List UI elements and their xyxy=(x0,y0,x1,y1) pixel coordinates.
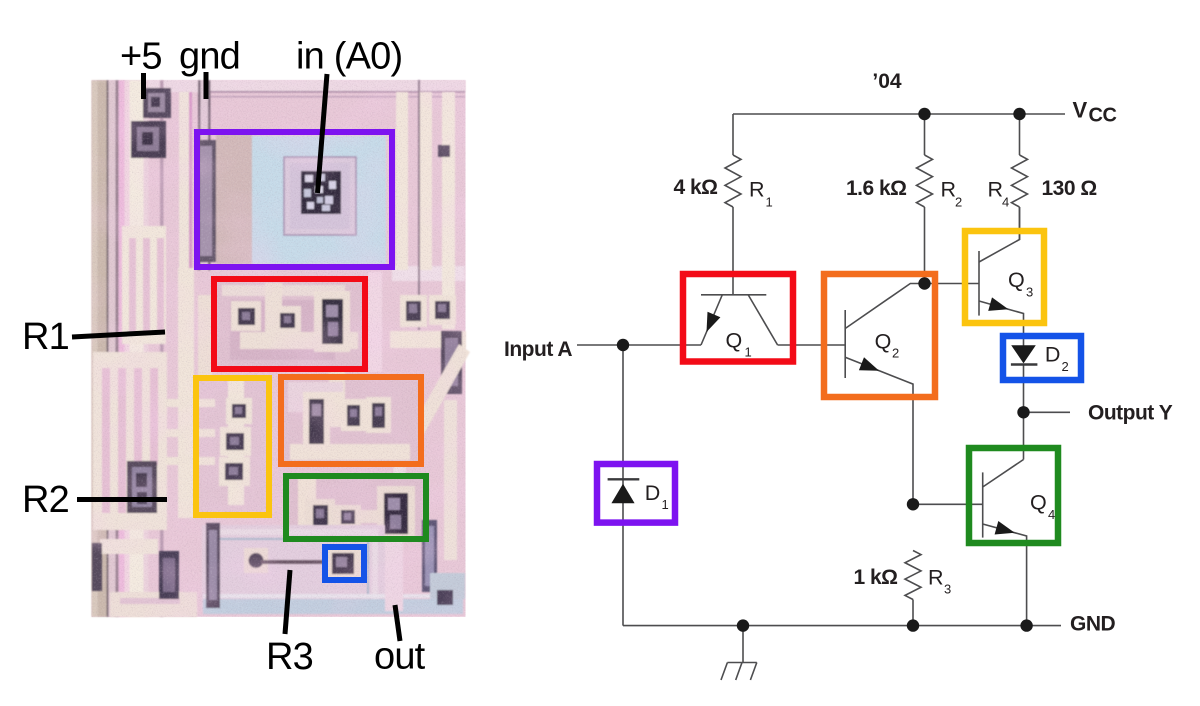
right diagonal street xyxy=(393,344,470,468)
svg-text:+5: +5 xyxy=(120,36,162,78)
yellow box interior xyxy=(196,378,269,515)
bottom-left cream street xyxy=(100,539,158,554)
transistor Q2 collector leg xyxy=(845,284,979,329)
bottom contact + trace to blue box xyxy=(244,548,268,573)
diode D1 triangle xyxy=(611,484,634,503)
diode D2 triangle xyxy=(1011,345,1036,363)
right horizontal street xyxy=(390,331,466,348)
resistor R4 zigzag xyxy=(1012,155,1028,207)
wire: R4 to Q3 collector xyxy=(1019,207,1021,240)
wire: R2 to collector node xyxy=(924,207,926,284)
out street xyxy=(385,539,403,611)
svg-text:’04: ’04 xyxy=(872,70,902,93)
svg-text:R3: R3 xyxy=(266,636,313,678)
gnd double trace xyxy=(198,80,201,270)
transistor Q2 emitter leg xyxy=(845,357,913,504)
svg-text:Q: Q xyxy=(875,330,892,354)
wire: GND rail xyxy=(623,625,1061,627)
svg-text:Q: Q xyxy=(1008,268,1025,292)
strips left of purple box xyxy=(179,92,189,270)
leader line R2 xyxy=(77,497,167,502)
schematic box: Q2 (orange) xyxy=(824,274,935,397)
svg-text:in (A0): in (A0) xyxy=(296,36,402,78)
annotation box: Q4 region (green) xyxy=(286,476,426,539)
resistor R3 zigzag xyxy=(905,551,921,600)
wire: VCC to R1 xyxy=(732,114,734,155)
leader line R1 xyxy=(72,332,165,337)
svg-text:R: R xyxy=(941,178,957,202)
svg-text:Input A: Input A xyxy=(504,338,572,361)
svg-text:GND: GND xyxy=(1070,613,1116,636)
transistor Q1 collector leg xyxy=(748,295,777,345)
R2 meander (left lower) xyxy=(93,352,167,530)
R1 meander (left) xyxy=(122,226,166,344)
wire: R1 to Q1 base xyxy=(732,207,734,295)
svg-text:2: 2 xyxy=(892,346,899,361)
junction dot GND / Q4 emitter xyxy=(1020,619,1032,631)
svg-text:130 Ω: 130 Ω xyxy=(1042,177,1097,200)
junction dot output node xyxy=(1017,406,1029,418)
junction dot GND / ground symbol xyxy=(737,619,749,631)
diode D1 anode-side bar xyxy=(608,478,640,480)
wire: Q1 collector to Q2 base xyxy=(778,344,846,346)
transistor Q3 emitter leg xyxy=(979,301,1024,346)
svg-text:D: D xyxy=(645,481,661,505)
svg-text:1: 1 xyxy=(662,497,669,512)
annotation box: Q1 region (red) xyxy=(214,279,365,369)
junction dot VCC/R2 xyxy=(918,108,930,120)
svg-text:R: R xyxy=(749,178,765,202)
leader tick +5 xyxy=(141,73,146,99)
svg-text:R1: R1 xyxy=(22,316,69,358)
annotation box: Q2 region (orange) xyxy=(281,377,421,464)
svg-text:V: V xyxy=(1073,98,1088,123)
transistor Q4 emitter arrow xyxy=(995,521,1015,535)
red box interior xyxy=(214,279,365,369)
bottom-right speckled strip xyxy=(422,520,437,592)
ground symbol stem xyxy=(742,626,744,663)
junction dot VCC/R4 xyxy=(1013,108,1025,120)
street right of red box xyxy=(368,272,382,372)
annotation box: Q3 region (yellow) xyxy=(196,378,269,515)
junction dot GND / R3 xyxy=(907,619,919,631)
ground symbol bar xyxy=(727,662,756,664)
svg-text:1: 1 xyxy=(766,195,773,210)
schematic box: Q4 (green) xyxy=(969,448,1058,543)
svg-text:4 kΩ: 4 kΩ xyxy=(673,176,717,199)
wire: Input A horizontal xyxy=(577,344,701,346)
svg-text:Q: Q xyxy=(726,328,743,352)
schematic box: D1 (purple) xyxy=(597,464,675,523)
wire: VCC to R4 xyxy=(1019,114,1021,155)
svg-text:R: R xyxy=(988,178,1004,202)
photo blotch + grain texture xyxy=(92,80,466,617)
schematic box: D2 (blue) xyxy=(1003,336,1081,380)
bottom-left dark blobs xyxy=(92,543,102,591)
svg-text:Q: Q xyxy=(1030,491,1047,515)
wire: R3 node to Q4 base xyxy=(913,503,983,505)
svg-text:1.6 kΩ: 1.6 kΩ xyxy=(846,177,907,200)
streets right of purple box xyxy=(392,266,465,281)
transistor Q3 collector leg xyxy=(979,207,1020,262)
leader line out xyxy=(395,605,400,641)
leader tick gnd xyxy=(204,72,209,99)
transistor Q3 base bar xyxy=(978,251,980,316)
transistor Q4 emitter leg xyxy=(983,524,1027,626)
wire: output stub xyxy=(1024,411,1071,413)
transistor Q1 base bar xyxy=(701,294,766,296)
lower right streets xyxy=(444,400,457,560)
R2 contact pad xyxy=(127,461,157,513)
svg-text:4: 4 xyxy=(1002,195,1009,210)
right dark speckled bar xyxy=(441,331,462,394)
transistor Q1 emitter leg xyxy=(701,295,722,345)
schematic box: Q3 (yellow) xyxy=(965,231,1044,323)
svg-text:out: out xyxy=(374,636,426,678)
green box interior xyxy=(286,476,426,539)
svg-text:CC: CC xyxy=(1089,105,1117,127)
wire: VCC to R2 xyxy=(924,114,926,155)
svg-text:Output Y: Output Y xyxy=(1088,402,1173,425)
svg-text:3: 3 xyxy=(944,582,951,597)
top band xyxy=(92,80,466,92)
ground symbol hatch 2 xyxy=(736,663,742,681)
ground symbol hatch 1 xyxy=(721,663,727,681)
svg-text:R2: R2 xyxy=(22,479,69,521)
right mid contacts xyxy=(400,295,427,327)
orange box interior xyxy=(281,377,421,464)
svg-text:1 kΩ: 1 kΩ xyxy=(853,566,897,589)
transistor Q3 emitter arrow xyxy=(988,297,1008,311)
ground symbol hatch 3 xyxy=(750,663,756,681)
bottom blue-gray band xyxy=(203,599,463,614)
svg-text:3: 3 xyxy=(1026,285,1033,300)
svg-text:4: 4 xyxy=(1048,507,1055,522)
transistor Q2 base bar xyxy=(844,310,846,378)
junction dot Q2 emitter / R3 / Q4 base xyxy=(907,498,919,510)
wire: D2 cathode to output node and Q4 collector xyxy=(1023,365,1025,460)
resistor R1 zigzag xyxy=(725,155,741,207)
leader line R3 xyxy=(285,570,290,634)
svg-text:gnd: gnd xyxy=(179,36,240,78)
annotation box: input pad region (purple) xyxy=(197,132,392,267)
svg-text:1: 1 xyxy=(745,345,752,360)
wire: R3 to GND xyxy=(912,600,914,626)
svg-text:D: D xyxy=(1045,343,1061,367)
junction dot Q2 collector / R2 xyxy=(918,277,930,289)
diode D2 cathode bar xyxy=(1011,363,1038,365)
transistor Q4 collector leg xyxy=(983,460,1024,488)
resistor R2 zigzag xyxy=(917,155,933,207)
leader line in (A0) xyxy=(318,74,328,193)
purple region: speckled bar + pale blue pad area xyxy=(196,140,216,262)
wire: input node down through D1 to GND xyxy=(622,345,624,626)
svg-text:R: R xyxy=(928,566,944,590)
annotation box: D2 region (blue) xyxy=(325,547,364,580)
bottom pale block region xyxy=(202,525,385,611)
transistor Q1 emitter arrow xyxy=(707,312,721,332)
die photo base xyxy=(92,80,466,617)
junction dot input node xyxy=(617,339,629,351)
svg-text:2: 2 xyxy=(1062,359,1069,374)
transistor Q2 emitter arrow xyxy=(859,357,879,371)
left vertical bands xyxy=(92,80,98,617)
svg-text:2: 2 xyxy=(955,195,962,210)
left cream street x178 xyxy=(178,268,194,518)
transistor Q4 base bar xyxy=(982,472,984,537)
top-left dark pads xyxy=(143,88,171,118)
blue box interior xyxy=(326,547,362,580)
wire: VCC rail xyxy=(733,113,1065,115)
dark speckled vertical bar xyxy=(206,523,220,608)
schematic box: Q1 (red) xyxy=(683,274,793,362)
